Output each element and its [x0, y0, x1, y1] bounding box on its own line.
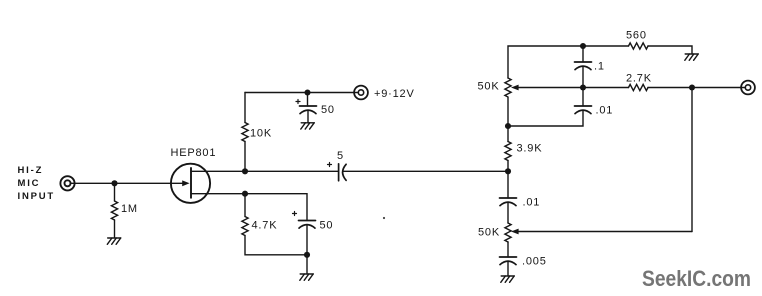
node main vertical junction	[505, 123, 511, 129]
wire supply rail	[245, 92, 358, 94]
wire 10K to rail	[244, 93, 246, 123]
svg-text:10K: 10K	[250, 128, 272, 140]
input terminal J1	[60, 176, 74, 190]
wire rail to bypass cap	[307, 93, 309, 107]
node signal junction	[505, 168, 511, 174]
wire 560 to ground	[648, 46, 692, 54]
wire cap .01 down and left to main vertical	[508, 110, 583, 126]
capacitor .005	[500, 257, 517, 265]
wire junction down to cap .01	[507, 171, 509, 198]
wire drain lead	[191, 170, 245, 172]
wire cap .005 to ground	[507, 261, 509, 275]
svg-text:1M: 1M	[121, 203, 138, 215]
svg-text:50K: 50K	[478, 227, 500, 239]
capacitor .1	[575, 62, 592, 70]
svg-text:.1: .1	[594, 61, 605, 73]
wire drain up to 10K	[244, 142, 246, 172]
wire junction down to 3.9K	[507, 126, 509, 142]
wire 4.7K down and right	[245, 236, 307, 255]
supply terminal +9-12V	[354, 86, 368, 100]
node feedback top junction	[580, 43, 586, 49]
wire right main vertical top	[507, 98, 509, 127]
wire junction to cap .01	[582, 88, 584, 107]
node rail junction	[304, 89, 310, 95]
wire source to 4.7K	[244, 194, 246, 217]
capacitor 50 (supply bypass)	[296, 100, 317, 114]
capacitor 50 (source bypass)	[293, 212, 316, 229]
wire 1M to ground	[114, 220, 116, 238]
resistor 4.7K	[242, 217, 248, 236]
svg-text:HEP801: HEP801	[171, 147, 217, 159]
capacitor .01 (tone)	[500, 198, 517, 206]
ground (output network)	[501, 276, 514, 282]
potentiometer 50K (top)	[505, 78, 511, 97]
svg-text:INPUT: INPUT	[18, 191, 56, 202]
resistor 3.9K	[505, 142, 511, 161]
wire junction down to 1M	[114, 183, 116, 201]
svg-text:SeekIC.com: SeekIC.com	[642, 266, 751, 291]
svg-text:.01: .01	[523, 197, 541, 209]
capacitor 5 (coupling)	[328, 163, 347, 181]
svg-text:2.7K: 2.7K	[626, 73, 652, 85]
node drain junction	[242, 168, 248, 174]
wire cap .1 to wiper line	[582, 66, 584, 87]
svg-text:50: 50	[320, 220, 334, 232]
node output junction	[689, 84, 695, 90]
input label HI-Z MIC INPUT	[18, 165, 56, 202]
svg-text:5: 5	[337, 150, 344, 162]
ground (supply bypass)	[301, 123, 314, 129]
svg-text:50: 50	[321, 104, 335, 116]
wire junction to ground	[306, 255, 308, 274]
capacitor .01 (feedback)	[575, 106, 592, 114]
ground (560)	[685, 54, 698, 60]
wire cap .01 to pot 50K (bottom)	[507, 202, 509, 223]
wire pot top to rail elbow	[508, 46, 629, 78]
output terminal	[741, 81, 755, 95]
watermark SeekIC.com	[642, 266, 751, 291]
wire source lead	[191, 193, 245, 195]
resistor 560	[629, 43, 649, 49]
svg-text:.005: .005	[522, 256, 547, 268]
svg-text:50K: 50K	[478, 81, 500, 93]
resistor 1M	[111, 201, 117, 220]
svg-text:+9·12V: +9·12V	[374, 88, 415, 100]
wire bypass cap to ground	[307, 110, 309, 122]
transistor Q1 HEP801 (FET)	[171, 164, 210, 203]
resistor 10K	[242, 123, 248, 142]
wire source to bypass cap 2	[245, 194, 307, 221]
node source bypass junction	[304, 252, 310, 258]
transistor Q1 HEP801 label	[171, 147, 217, 159]
wire top junction to cap .1	[582, 46, 584, 62]
wire coupling cap to right section	[343, 170, 508, 172]
svg-text:4.7K: 4.7K	[252, 220, 278, 232]
stray speck	[383, 217, 385, 219]
node source junction	[242, 191, 248, 197]
wire pot to cap .005	[507, 242, 509, 257]
ground (input)	[107, 238, 120, 244]
resistor 2.7K	[629, 84, 649, 90]
svg-text:.01: .01	[596, 105, 614, 117]
svg-text:HI-Z: HI-Z	[18, 165, 44, 176]
wire 2.7K to output	[648, 87, 745, 89]
ground (source bypass)	[300, 274, 313, 280]
svg-text:3.9K: 3.9K	[517, 143, 543, 155]
svg-text:560: 560	[626, 30, 647, 42]
wire 3.9K to signal junction	[507, 161, 509, 172]
svg-text:MIC: MIC	[18, 178, 41, 189]
wire drain to coupling cap	[245, 170, 338, 172]
potentiometer 50K (bottom)	[505, 223, 511, 242]
wire wiper up to output junction	[691, 88, 693, 232]
wiper arrow (top pot)	[511, 85, 629, 91]
wiper arrow (bottom pot)	[511, 229, 692, 235]
wire source bypass cap down	[306, 225, 308, 255]
node input junction	[111, 180, 117, 186]
wire input to gate	[71, 182, 183, 184]
node wiper line junction	[580, 84, 586, 90]
